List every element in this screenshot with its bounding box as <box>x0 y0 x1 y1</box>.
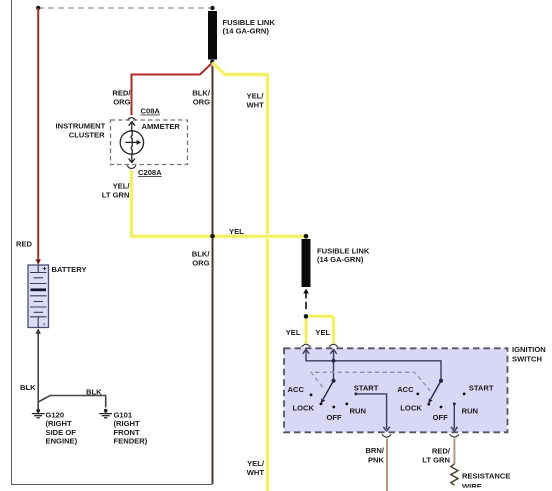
svg-text:(14 GA-GRN): (14 GA-GRN) <box>317 255 364 264</box>
svg-text:WHT: WHT <box>247 468 265 477</box>
svg-text:+: + <box>42 264 47 273</box>
svg-text:PNK: PNK <box>368 455 385 464</box>
connector C208A <box>127 166 136 169</box>
wire: YEL/WHT from F1 node down right side <box>213 63 268 491</box>
switch wafer 2 lever <box>439 379 443 383</box>
wire: YEL/LT GRN from C208A to F2 <box>132 171 306 237</box>
svg-text:BLK: BLK <box>86 387 102 396</box>
svg-text:OFF: OFF <box>433 413 449 422</box>
svg-text:INSTRUMENT: INSTRUMENT <box>56 121 106 130</box>
mechanical linkage (dashed) <box>311 372 430 390</box>
svg-text:RUN: RUN <box>350 406 366 415</box>
svg-text:ORG: ORG <box>193 97 210 106</box>
svg-text:YEL/: YEL/ <box>113 182 131 191</box>
svg-text:OFF: OFF <box>327 413 343 422</box>
ammeter M1 <box>120 122 143 163</box>
svg-text:YEL: YEL <box>315 328 330 337</box>
wire: left feed inside switch <box>303 349 441 380</box>
svg-text:ORG: ORG <box>113 97 130 106</box>
fusible link F2 <box>304 234 309 239</box>
svg-text:RESISTANCE: RESISTANCE <box>462 472 510 481</box>
resistor: resistance wire <box>451 464 458 485</box>
switch wafer 1 lever <box>332 379 336 383</box>
svg-text:RED/: RED/ <box>432 447 451 456</box>
svg-text:C208A: C208A <box>138 168 162 177</box>
wire: RED/ORG from F1 node to ammeter <box>132 63 213 116</box>
svg-text:CLUSTER: CLUSTER <box>69 130 105 139</box>
svg-text:RUN: RUN <box>462 406 478 415</box>
svg-text:SIDE OF: SIDE OF <box>46 428 77 437</box>
svg-text:BLK/: BLK/ <box>192 88 211 97</box>
svg-text:SWITCH: SWITCH <box>512 355 542 364</box>
connector arcs at ignition switch top <box>302 344 311 347</box>
fusible link F1 <box>208 11 217 60</box>
wire: BLK battery negative to ground <box>36 328 41 333</box>
svg-text:FENDER): FENDER) <box>114 437 148 446</box>
svg-text:LT GRN: LT GRN <box>102 191 130 200</box>
switch wafer 1 position dots <box>310 394 313 397</box>
svg-text:FUSIBLE LINK: FUSIBLE LINK <box>223 18 276 27</box>
wire: RED feed from junction to battery <box>37 8 39 260</box>
svg-text:ENGINE): ENGINE) <box>46 437 78 446</box>
ground G101 <box>99 409 112 418</box>
svg-text:RED: RED <box>16 240 33 249</box>
svg-text:YEL: YEL <box>286 328 301 337</box>
switch wafer 2 position dots <box>416 393 419 396</box>
wire: dashed continuation line at top <box>38 7 213 9</box>
wire: BRN/PNK output <box>386 439 388 491</box>
svg-text:ORG: ORG <box>192 259 209 268</box>
wire: START output (BRN/PNK) inside box <box>356 394 387 429</box>
svg-text:RED/: RED/ <box>112 88 131 97</box>
svg-text:G101: G101 <box>114 410 133 419</box>
svg-text:BLK: BLK <box>20 383 36 392</box>
instrument cluster dashed box <box>111 120 188 165</box>
wire: RED/LT GRN output <box>453 439 455 465</box>
svg-text:BLK/: BLK/ <box>192 250 211 259</box>
border frame <box>12 0 213 485</box>
wire: arrow-dash-dot below F2 <box>303 289 309 294</box>
wire: YEL left branch into ignition switch <box>304 319 309 344</box>
node: top junction dot above fusible link F1 <box>210 6 214 10</box>
svg-text:ACC: ACC <box>397 385 414 394</box>
node below F1 <box>210 60 215 65</box>
ignition switch box <box>284 348 508 432</box>
battery B1 <box>28 264 49 328</box>
svg-text:START: START <box>469 384 494 393</box>
svg-text:(RIGHT: (RIGHT <box>114 419 141 428</box>
svg-text:BATTERY: BATTERY <box>52 265 87 274</box>
node: junction inside switch <box>332 359 336 363</box>
wire: BLK branch to G101 <box>38 396 106 408</box>
svg-text:AMMETER: AMMETER <box>142 122 181 131</box>
svg-text:LOCK: LOCK <box>400 404 422 413</box>
svg-text:FUSIBLE LINK: FUSIBLE LINK <box>317 246 370 255</box>
svg-text:LT GRN: LT GRN <box>422 455 450 464</box>
svg-text:START: START <box>354 384 379 393</box>
svg-text:(RIGHT: (RIGHT <box>46 419 73 428</box>
svg-text:(14 GA-GRN): (14 GA-GRN) <box>223 27 270 36</box>
svg-text:G120: G120 <box>46 410 65 419</box>
svg-text:ACC: ACC <box>288 385 305 394</box>
svg-text:C08A: C08A <box>141 107 161 116</box>
svg-text:BRN/: BRN/ <box>365 446 384 455</box>
node: YEL crosses BLK/ORG junction <box>210 234 215 239</box>
wire: RUN output (RED/LT GRN) inside box <box>453 404 455 429</box>
svg-text:YEL/: YEL/ <box>247 459 265 468</box>
node: top-left junction dot <box>36 6 40 10</box>
svg-text:LOCK: LOCK <box>293 404 315 413</box>
svg-text:YEL/: YEL/ <box>247 92 265 101</box>
svg-text:WHT: WHT <box>247 101 265 110</box>
connector arcs at ignition switch bottom <box>382 434 391 437</box>
svg-text:FRONT: FRONT <box>114 428 141 437</box>
svg-text:YEL: YEL <box>229 227 244 236</box>
wire: YEL right branch into ignition switch <box>308 316 333 343</box>
ground G120 <box>32 409 45 418</box>
svg-text:IGNITION: IGNITION <box>512 345 546 354</box>
wire: BLK/ORG main vertical <box>212 62 214 484</box>
